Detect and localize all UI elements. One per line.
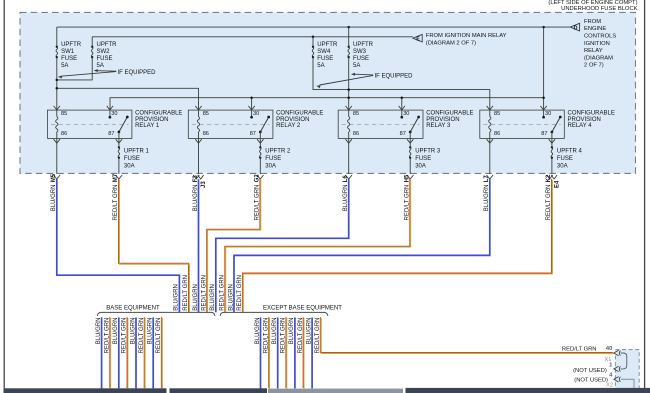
wire label: BLU/GRN (96, 318, 102, 345)
svg-text:RED/LT GRN: RED/LT GRN (105, 318, 111, 354)
svg-text:RED/LT GRN: RED/LT GRN (183, 275, 189, 311)
node: bus2/SW4 junction (312, 36, 315, 39)
fuse UPFTR SW3 5A (348, 27, 374, 69)
svg-text:86: 86 (61, 131, 67, 137)
fuse UPFTR 2 30A (259, 138, 291, 174)
svg-text:30A: 30A (557, 164, 568, 170)
svg-text:(NOT USED): (NOT USED) (574, 378, 608, 384)
wire: base equipment branch 2 (RED/LT GRN) (109, 317, 112, 389)
node: bottom connector bar segment 1 (4, 388, 167, 393)
svg-text:UPFTR: UPFTR (61, 42, 82, 48)
op-amp relay: CONFIGURABLE PROVISION RELAY 2 (188, 106, 323, 143)
svg-text:85: 85 (494, 111, 500, 117)
node: fuse block exit pin M7 (RED/LT GRN) (113, 173, 122, 220)
wire: bus 2 (from E arrow to SW2/SW4 fuses) (92, 36, 413, 38)
node: SW2/SW1 join (56, 79, 59, 82)
svg-text:5A: 5A (317, 63, 324, 69)
svg-text:UPFTR: UPFTR (317, 42, 338, 48)
node: pin 40 terminal chevron (614, 350, 621, 355)
svg-text:87: 87 (400, 131, 406, 137)
wire label: RED/LT GRN at x=225.2 (220, 275, 226, 311)
svg-text:PROVISION: PROVISION (568, 117, 601, 123)
svg-text:RED/LT GRN: RED/LT GRN (139, 318, 145, 354)
node: fuse block exit pin G2 (RED/LT GRN) (255, 174, 264, 221)
wire label: BLU/GRN (113, 318, 119, 345)
svg-text:BASE EQUIPMENT: BASE EQUIPMENT (106, 305, 160, 311)
svg-text:(DIAGRAM: (DIAGRAM (584, 55, 613, 61)
node: EXCEPT BASE EQUIPMENT brace (220, 305, 342, 316)
svg-text:BLU/GRN: BLU/GRN (289, 318, 295, 345)
wire: SW1 fuse output down to relay 1 pin 85 (56, 57, 58, 110)
wire label: RED/LT GRN at x=207.1 (201, 275, 207, 311)
svg-text:RED/LT GRN: RED/LT GRN (263, 318, 269, 354)
node: fuse block exit pin L6 (BLU/GRN) (343, 175, 352, 212)
connector dashed box (right) (615, 350, 639, 393)
wire: SW2 fuse output joining SW1 wire (57, 57, 92, 80)
wire: bus 1 (from D arrow to SW1/SW3 fuses) (57, 26, 571, 28)
svg-text:SW2: SW2 (97, 49, 111, 55)
svg-text:30: 30 (545, 111, 551, 117)
node: fuse block exit pin F3 (BLU/GRN) (193, 175, 207, 212)
wire: SW3 fuse output down to relay 3 pin 85 (348, 57, 350, 110)
svg-text:IGNITION: IGNITION (584, 41, 610, 47)
wire label: RED/LT GRN (281, 318, 287, 354)
wire label: RED/LT GRN (156, 318, 162, 354)
svg-text:RED/LT GRN: RED/LT GRN (156, 318, 162, 354)
op-amp relay: CONFIGURABLE PROVISION RELAY 3 (338, 106, 473, 143)
svg-text:RED/LT GRN: RED/LT GRN (562, 347, 597, 353)
svg-text:RED/LT GRN: RED/LT GRN (220, 275, 226, 311)
wire: M5 BLU/GRN wire (57, 179, 180, 312)
wire: left page border (3, 0, 5, 389)
node: fuse block exit pin H5 (RED/LT GRN) (405, 174, 414, 220)
svg-text:UPFTR: UPFTR (97, 42, 118, 48)
svg-text:FUSE: FUSE (317, 56, 333, 62)
svg-text:FROM IGNITION MAIN RELAY: FROM IGNITION MAIN RELAY (426, 33, 507, 39)
wire label: BLU/GRN at x=215.8 (210, 284, 216, 311)
fuse UPFTR SW2 5A (91, 37, 117, 69)
wire: except-base branch 6 (RED/LT GRN) (302, 317, 305, 389)
wire: except-base branch 2 (RED/LT GRN) (268, 317, 271, 389)
svg-text:RELAY: RELAY (584, 48, 603, 54)
node: fuse block exit pin K2 (RED/LT GRN) (546, 174, 560, 220)
svg-text:5A: 5A (97, 63, 104, 69)
svg-text:1: 1 (609, 362, 613, 368)
svg-text:SW4: SW4 (317, 49, 331, 55)
svg-text:UPFTR 4: UPFTR 4 (557, 148, 583, 154)
wire: base equipment branch 8 (RED/LT GRN) (160, 317, 163, 389)
wire: except-base branch 3 (BLU/GRN) (277, 317, 279, 388)
svg-text:86: 86 (494, 131, 500, 137)
svg-text:RED/LT GRN: RED/LT GRN (201, 275, 207, 311)
svg-text:30A: 30A (415, 164, 426, 170)
svg-text:2 OF 7): 2 OF 7) (584, 63, 604, 69)
node: fuse block exit pin L7 (BLU/GRN) (484, 175, 493, 212)
wire: X1 internal bracket pin 40 to pin 1 (621, 353, 627, 369)
svg-text:BLU/GRN: BLU/GRN (130, 318, 136, 345)
node: bus1/SW3 junction (347, 26, 350, 29)
wire: relay 1 pin 86 to fuse block exit (56, 138, 58, 174)
svg-text:RED/LT GRN: RED/LT GRN (281, 318, 287, 354)
svg-text:85: 85 (61, 111, 67, 117)
wire label: RED/LT GRN (105, 318, 111, 354)
svg-text:(DIAGRAM 2 OF 7): (DIAGRAM 2 OF 7) (426, 40, 476, 46)
wire label: BLU/GRN at x=179.4 (174, 284, 180, 311)
wire label: RED/LT GRN at x=188.9 (183, 275, 189, 311)
svg-text:E: E (416, 37, 420, 43)
svg-text:CONFIGURABLE: CONFIGURABLE (135, 111, 182, 117)
wire label: RED/LT GRN (298, 318, 304, 354)
wire: X2 pin 4 stub to bottom bar (621, 379, 634, 388)
svg-text:BLU/GRN: BLU/GRN (228, 284, 234, 311)
fuse UPFTR 1 30A (118, 138, 150, 174)
svg-text:BLU/GRN: BLU/GRN (174, 284, 180, 311)
svg-text:D: D (574, 26, 578, 32)
svg-text:CONFIGURABLE: CONFIGURABLE (276, 111, 323, 117)
svg-text:FUSE: FUSE (557, 156, 573, 162)
node: pin 4 (NOT USED) connector X2 (574, 373, 620, 389)
wire label: RED/LT GRN (to pin 40) (562, 347, 597, 353)
svg-text:UPFTR 1: UPFTR 1 (124, 148, 150, 154)
wire label: BLU/GRN (148, 318, 154, 345)
svg-text:IF EQUIPPED: IF EQUIPPED (118, 70, 157, 76)
wire: bus A from SW1 output to relay 2 pin 85 (57, 88, 199, 110)
wire: relay 3 pin 86 to fuse block exit (348, 138, 350, 174)
wire: except-base branch 1 (BLU/GRN) (260, 317, 262, 388)
svg-text:EXCEPT BASE EQUIPMENT: EXCEPT BASE EQUIPMENT (263, 305, 342, 311)
wire: G2 RED/LT GRN wire (207, 179, 261, 313)
svg-text:85: 85 (203, 111, 209, 117)
svg-text:RED/LT GRN: RED/LT GRN (122, 318, 128, 354)
svg-text:BLU/GRN: BLU/GRN (96, 318, 102, 345)
svg-text:UPFTR 2: UPFTR 2 (265, 148, 291, 154)
svg-text:CONTROLS: CONTROLS (584, 34, 616, 40)
svg-text:BLU/GRN: BLU/GRN (148, 318, 154, 345)
svg-text:FUSE: FUSE (265, 156, 281, 162)
svg-text:(LEFT SIDE OF ENGINE COMPT): (LEFT SIDE OF ENGINE COMPT) (548, 0, 637, 6)
svg-text:RED/LT GRN: RED/LT GRN (298, 318, 304, 354)
svg-text:85: 85 (353, 111, 359, 117)
wire: base equipment branch 1 (BLU/GRN) (101, 317, 103, 388)
node: fuse block exit pin M5 (BLU/GRN) (51, 173, 60, 211)
node: pin 1 (NOT USED) (573, 362, 620, 374)
svg-text:4: 4 (609, 373, 613, 379)
wire: branch from bus 1 down to bus B / relay 4 pin 30 (543, 27, 545, 110)
svg-text:PROVISION: PROVISION (426, 117, 459, 123)
svg-text:RELAY 2: RELAY 2 (276, 123, 301, 129)
node: BASE EQUIPMENT brace (97, 305, 215, 316)
svg-text:87: 87 (541, 131, 547, 137)
wire: except-base branch 5 (BLU/GRN) (294, 317, 296, 388)
connector arrow E: FROM IGNITION MAIN RELAY (413, 33, 507, 46)
wire: right page border (644, 0, 646, 389)
wire: relay 4 pin 86 to fuse block exit (489, 138, 491, 174)
op-amp relay: CONFIGURABLE PROVISION RELAY 1 (48, 106, 183, 143)
wire: except-base branch 7 (BLU/GRN) (311, 317, 313, 388)
svg-text:30: 30 (403, 111, 409, 117)
wire: L7 BLU/GRN wire (234, 179, 490, 312)
node: SW4/SW3 join (347, 88, 350, 91)
svg-text:5A: 5A (61, 63, 68, 69)
svg-text:ENGINE: ENGINE (584, 26, 606, 32)
wire: relay 2 pin 86 to fuse block exit (198, 138, 200, 174)
wire label: RED/LT GRN (315, 318, 321, 354)
svg-text:IF EQUIPPED: IF EQUIPPED (375, 74, 414, 80)
svg-text:FUSE: FUSE (353, 56, 369, 62)
svg-text:J3: J3 (201, 181, 207, 188)
wire label: RED/LT GRN (122, 318, 128, 354)
node: bottom connector bar segment 3 (light) (268, 389, 403, 393)
svg-text:CONFIGURABLE: CONFIGURABLE (426, 111, 473, 117)
svg-text:86: 86 (353, 131, 359, 137)
node: bus B / relay 3 pin 30 (401, 96, 404, 99)
svg-text:RELAY 4: RELAY 4 (568, 123, 593, 129)
wire label: BLU/GRN (306, 318, 312, 345)
fuse UPFTR SW1 5A (56, 27, 82, 69)
svg-text:30A: 30A (265, 164, 276, 170)
wire label: RED/LT GRN (139, 318, 145, 354)
svg-text:UPFTR: UPFTR (353, 42, 374, 48)
wire label: BLU/GRN (130, 318, 136, 345)
svg-text:FUSE: FUSE (97, 56, 113, 62)
wire: base equipment branch 3 (BLU/GRN) (118, 317, 120, 388)
svg-text:PROVISION: PROVISION (135, 117, 168, 123)
node: connector X1 label (605, 357, 612, 363)
note: IF EQUIPPED (right, SW3/SW4 fuses) (316, 73, 413, 89)
svg-text:E4: E4 (554, 180, 560, 188)
svg-text:BLU/GRN: BLU/GRN (113, 318, 119, 345)
wire label: BLU/GRN (255, 318, 261, 345)
wire: base equipment branch 4 (RED/LT GRN) (126, 317, 129, 389)
svg-text:BLU/GRN: BLU/GRN (255, 318, 261, 345)
svg-text:FROM: FROM (584, 19, 601, 25)
node: bottom connector bar segment 2 (170, 388, 268, 393)
svg-text:87: 87 (108, 131, 114, 137)
wire label: BLU/GRN at x=234.0 (228, 284, 234, 311)
svg-text:UNDERHOOD FUSE BLOCK: UNDERHOOD FUSE BLOCK (561, 6, 637, 12)
svg-text:FUSE: FUSE (61, 56, 77, 62)
svg-text:BLU/GRN: BLU/GRN (272, 318, 278, 345)
wire: base equipment branch 7 (BLU/GRN) (152, 317, 154, 388)
wire: L6 BLU/GRN wire (216, 179, 349, 312)
wire label: BLU/GRN (289, 318, 295, 345)
node: pin 40 (606, 346, 612, 352)
svg-text:FUSE: FUSE (415, 156, 431, 162)
svg-text:SW3: SW3 (353, 49, 367, 55)
svg-text:30: 30 (111, 111, 117, 117)
wire label: RED/LT GRN (263, 318, 269, 354)
underhood fuse block (dashed outline box) (20, 12, 636, 173)
wire: K2 RED/LT GRN wire (242, 179, 552, 313)
fuse UPFTR 3 30A (409, 138, 441, 174)
svg-text:UPFTR 3: UPFTR 3 (415, 148, 441, 154)
wire label: BLU/GRN at x=198.5 (193, 284, 199, 311)
svg-text:30A: 30A (124, 164, 135, 170)
wire label: BLU/GRN (272, 318, 278, 345)
fuse UPFTR 4 30A (551, 138, 583, 174)
svg-text:40: 40 (606, 346, 612, 352)
svg-text:BLU/GRN: BLU/GRN (306, 318, 312, 345)
svg-text:5A: 5A (353, 63, 360, 69)
svg-text:PROVISION: PROVISION (276, 117, 309, 123)
connector arrow D: FROM ENGINE CONTROLS IGNITION RELAY (570, 19, 616, 69)
svg-text:RED/LT GRN: RED/LT GRN (315, 318, 321, 354)
wire: M7 RED/LT GRN wire (119, 179, 190, 313)
svg-text:SW1: SW1 (61, 49, 75, 55)
svg-text:RELAY 3: RELAY 3 (426, 123, 451, 129)
node: SW1/bus A junction (56, 87, 59, 90)
wire: F3 BLU/GRN wire (198, 179, 200, 312)
wire: except-base branch 8 RED/LT GRN to connector X1 pin 40 (320, 317, 614, 353)
node: bus B / relay 4 pin 30 branch (542, 96, 545, 99)
node: bus B / relay 2 pin 30 (250, 96, 253, 99)
svg-text:FUSE: FUSE (124, 156, 140, 162)
svg-text:30: 30 (253, 111, 259, 117)
node: bus B / SW3 wire (347, 96, 350, 99)
wire: except-base branch 4 (RED/LT GRN) (285, 317, 288, 389)
svg-text:CONFIGURABLE: CONFIGURABLE (568, 111, 615, 117)
wire: H5 RED/LT GRN wire (225, 179, 411, 313)
wire: base equipment branch 6 (RED/LT GRN) (143, 317, 146, 389)
svg-text:X2: X2 (606, 383, 613, 389)
svg-text:86: 86 (203, 131, 209, 137)
svg-text:(NOT USED): (NOT USED) (573, 368, 607, 374)
node: bus1/branch junction (542, 26, 545, 29)
svg-text:BLU/GRN: BLU/GRN (210, 284, 216, 311)
svg-text:RELAY 1: RELAY 1 (135, 123, 160, 129)
svg-text:RED/LT GRN: RED/LT GRN (237, 275, 243, 311)
wire: SW4 fuse output joining SW3 wire and feeding relay 4 pin 85 (313, 57, 490, 110)
header: fuse block location label (548, 0, 637, 12)
node: bottom connector bar segment 4 (406, 388, 650, 393)
wire label: RED/LT GRN at x=242.8 (237, 275, 243, 311)
wire: bus B feeding relay pins 30 (110, 98, 544, 110)
op-amp relay: CONFIGURABLE PROVISION RELAY 4 (480, 106, 615, 143)
svg-text:87: 87 (250, 131, 256, 137)
wire: base equipment branch 5 (BLU/GRN) (135, 317, 137, 388)
fuse UPFTR SW4 5A (312, 37, 338, 69)
svg-text:BLU/GRN: BLU/GRN (193, 284, 199, 311)
note: IF EQUIPPED (left, SW1/SW2 fuses) (58, 69, 156, 79)
